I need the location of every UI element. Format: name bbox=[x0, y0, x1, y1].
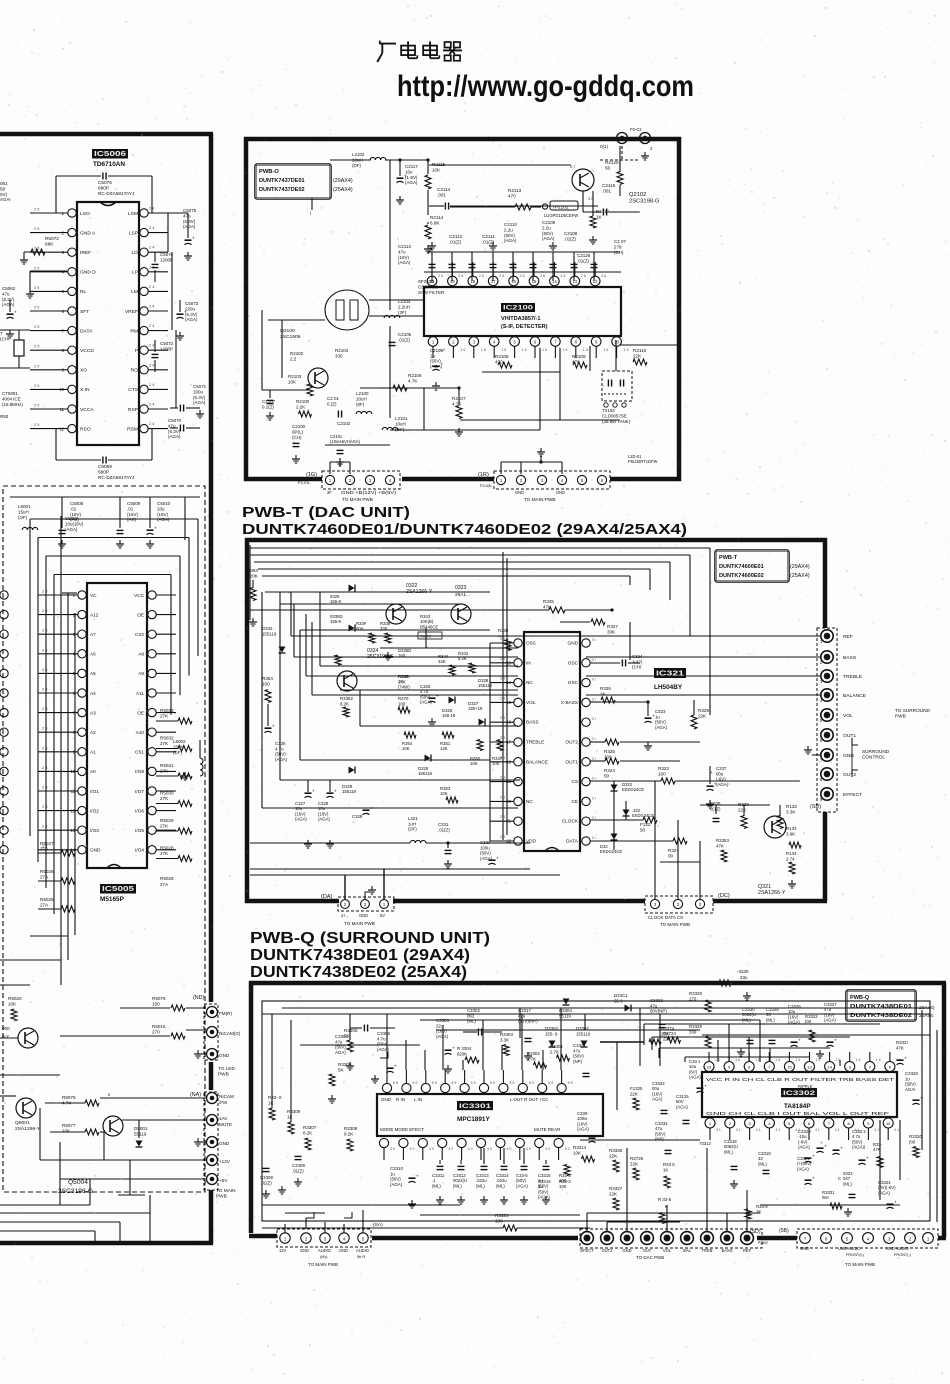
svg-text:55119: 55119 bbox=[134, 1132, 147, 1137]
svg-text:2 6: 2 6 bbox=[438, 274, 443, 278]
svg-text:27A: 27A bbox=[40, 903, 49, 908]
svg-text:(50V): (50V) bbox=[905, 1082, 916, 1087]
svg-text:R3353: R3353 bbox=[716, 838, 729, 843]
svg-text:BASS: BASS bbox=[843, 655, 857, 661]
svg-text:C2108: C2108 bbox=[564, 231, 578, 236]
svg-text:C323: C323 bbox=[655, 709, 666, 714]
svg-text:4.7u: 4.7u bbox=[377, 1036, 386, 1041]
svg-text:TO MAIN PWB: TO MAIN PWB bbox=[308, 1262, 338, 1267]
svg-text:5V: 5V bbox=[380, 913, 385, 918]
svg-text:2 4: 2 4 bbox=[149, 422, 155, 426]
svg-text:5 9: 5 9 bbox=[432, 1081, 437, 1085]
svg-text:R2108: R2108 bbox=[495, 354, 509, 359]
svg-text:RL: RL bbox=[80, 289, 87, 295]
svg-text:I/O1: I/O1 bbox=[90, 789, 99, 794]
svg-text:10K: 10K bbox=[440, 791, 448, 796]
svg-text:0 /: 0 / bbox=[592, 737, 596, 741]
svg-text:R3329: R3329 bbox=[689, 991, 702, 996]
svg-text:M5165P: M5165P bbox=[100, 896, 125, 903]
svg-text:CLD0057SE: CLD0057SE bbox=[602, 413, 627, 418]
svg-text:(AGA): (AGA) bbox=[398, 260, 411, 265]
svg-text:(CHI: (CHI bbox=[632, 665, 641, 670]
svg-text:1K: 1K bbox=[600, 692, 607, 697]
svg-text:(SD): (SD) bbox=[810, 804, 821, 810]
svg-text:R2120: R2120 bbox=[605, 160, 619, 165]
svg-text:OSC: OSC bbox=[568, 660, 579, 665]
svg-text:GND: GND bbox=[359, 913, 368, 918]
svg-text:(AGA): (AGA) bbox=[405, 180, 418, 185]
svg-text:9: 9 bbox=[751, 1227, 753, 1231]
svg-text:2 6: 2 6 bbox=[560, 274, 565, 278]
svg-text:(AX): (AX) bbox=[127, 517, 136, 522]
svg-text:1 6: 1 6 bbox=[795, 1058, 800, 1062]
svg-text:CS2: CS2 bbox=[135, 632, 145, 637]
svg-text:+: + bbox=[812, 1177, 815, 1182]
svg-text:.01: .01 bbox=[127, 506, 134, 511]
svg-text:I/O8: I/O8 bbox=[135, 769, 144, 774]
svg-text:(AGA): (AGA) bbox=[168, 434, 181, 439]
svg-text:2F: 2F bbox=[327, 490, 332, 495]
svg-text:B5446CE: B5446CE bbox=[420, 624, 438, 629]
svg-text:0 /: 0 / bbox=[592, 836, 596, 840]
svg-text:(16.9MHz): (16.9MHz) bbox=[2, 402, 23, 407]
svg-text:R IN: R IN bbox=[396, 1097, 405, 1102]
svg-text:L5001: L5001 bbox=[18, 504, 31, 509]
svg-text:VCC: VCC bbox=[134, 593, 145, 598]
svg-text:100: 100 bbox=[658, 772, 666, 777]
svg-text:R32-: R32- bbox=[668, 848, 678, 853]
svg-text:+: + bbox=[840, 1147, 843, 1152]
svg-text:C5008: C5008 bbox=[70, 501, 84, 506]
svg-text:R325: R325 bbox=[604, 749, 615, 754]
svg-text:C2111: C2111 bbox=[482, 234, 495, 239]
svg-text:27K: 27K bbox=[160, 851, 169, 856]
svg-text:PWB: PWB bbox=[895, 714, 906, 719]
svg-text:(AGA): (AGA) bbox=[655, 725, 668, 730]
svg-text:GND A: GND A bbox=[80, 230, 96, 236]
svg-text:GND: GND bbox=[568, 641, 579, 646]
svg-text:+: + bbox=[704, 1085, 707, 1090]
svg-text:C3310: C3310 bbox=[390, 1166, 403, 1171]
svg-text:4 1: 4 1 bbox=[874, 1128, 879, 1132]
svg-text:R363: R363 bbox=[247, 568, 258, 573]
svg-text:C3309: C3309 bbox=[260, 1175, 273, 1180]
svg-text:4 0: 4 0 bbox=[468, 1147, 473, 1151]
svg-text:SF2100: SF2100 bbox=[418, 279, 434, 284]
svg-text:56: 56 bbox=[605, 166, 611, 171]
svg-text:-3330: -3330 bbox=[737, 969, 749, 974]
svg-text:(ML): (ML) bbox=[724, 1149, 733, 1154]
svg-text:TO MAIN PWB: TO MAIN PWB bbox=[342, 497, 373, 502]
svg-text:2.7K: 2.7K bbox=[550, 1049, 559, 1054]
svg-text:L OUT R OUT +CC: L OUT R OUT +CC bbox=[510, 1097, 549, 1102]
svg-text:(AGA): (AGA) bbox=[504, 238, 517, 243]
svg-text:0 /: 0 / bbox=[592, 678, 596, 682]
svg-text:DUNTK7437DE02: DUNTK7437DE02 bbox=[259, 187, 305, 193]
svg-text:12K: 12K bbox=[440, 746, 448, 751]
svg-text:GND D: GND D bbox=[80, 270, 96, 276]
svg-text:58: 58 bbox=[0, 186, 5, 191]
svg-text:(29AX4): (29AX4) bbox=[790, 564, 810, 570]
svg-text:(16V): (16V) bbox=[127, 512, 138, 517]
svg-text:27K: 27K bbox=[160, 741, 169, 746]
svg-text:R3309: R3309 bbox=[287, 1109, 301, 1114]
svg-text:R2113: R2113 bbox=[508, 188, 522, 193]
svg-text:A12: A12 bbox=[90, 612, 99, 617]
svg-text:OE: OE bbox=[137, 612, 144, 617]
svg-text:GND: GND bbox=[556, 490, 565, 495]
svg-text:LSO: LSO bbox=[80, 211, 90, 217]
svg-text:10uH: 10uH bbox=[395, 421, 406, 426]
svg-text:.01(Z): .01(Z) bbox=[577, 258, 589, 263]
svg-text:0 /: 0 / bbox=[592, 757, 596, 761]
svg-text:A4: A4 bbox=[90, 691, 96, 696]
svg-text:1 6: 1 6 bbox=[522, 348, 527, 352]
svg-text:.01: .01 bbox=[70, 506, 77, 511]
svg-text:VOL: VOL bbox=[843, 713, 853, 719]
svg-text:10K: 10K bbox=[573, 1150, 581, 1155]
svg-text:(50V): (50V) bbox=[504, 233, 515, 238]
svg-text:R5028: R5028 bbox=[160, 876, 174, 881]
svg-text:5 9: 5 9 bbox=[471, 1081, 476, 1085]
svg-text:10K: 10K bbox=[432, 168, 441, 173]
svg-text:DATA: DATA bbox=[80, 328, 93, 334]
svg-text:R133: R133 bbox=[786, 826, 797, 831]
svg-text:(AGA): (AGA) bbox=[542, 236, 555, 241]
svg-text:2: 2 bbox=[729, 1121, 731, 1126]
svg-text:R335: R335 bbox=[543, 599, 554, 604]
svg-text:22K: 22K bbox=[609, 1191, 617, 1196]
svg-text:CONTROL: CONTROL bbox=[862, 755, 885, 760]
svg-text:100: 100 bbox=[559, 1184, 567, 1189]
svg-text:100: 100 bbox=[262, 682, 270, 687]
svg-text:P2-02L: P2-02L bbox=[480, 484, 493, 488]
svg-text:FM(R): FM(R) bbox=[219, 1011, 232, 1016]
svg-text:C2 07: C2 07 bbox=[614, 239, 626, 244]
svg-text:4004 ICE: 4004 ICE bbox=[2, 396, 21, 401]
svg-text:TD6710AN: TD6710AN bbox=[93, 161, 125, 168]
svg-text:+: + bbox=[866, 1157, 869, 1162]
svg-text:AGA): AGA) bbox=[335, 1050, 346, 1055]
svg-text:/FM: /FM bbox=[219, 1100, 227, 1105]
svg-text:4 0: 4 0 bbox=[545, 1147, 550, 1151]
svg-text:(AGA): (AGA) bbox=[193, 400, 206, 405]
svg-text:2?9: 2?9 bbox=[614, 244, 622, 249]
svg-text:(NA): (NA) bbox=[190, 1092, 201, 1098]
svg-text:C5075: C5075 bbox=[183, 208, 197, 213]
svg-text:R327: R327 bbox=[607, 624, 618, 629]
svg-text:5 9: 5 9 bbox=[490, 1081, 495, 1085]
svg-text:(ML): (ML) bbox=[453, 1183, 462, 1188]
svg-text:OE: OE bbox=[137, 710, 144, 715]
svg-text:...: ... bbox=[498, 633, 502, 638]
svg-text:2 4: 2 4 bbox=[149, 305, 155, 309]
svg-text:LSM: LSM bbox=[128, 211, 138, 217]
svg-text:FRONT(-): FRONT(-) bbox=[894, 1253, 912, 1257]
svg-text:(AGA): (AGA) bbox=[797, 1166, 809, 1171]
svg-text:(ML): (ML) bbox=[496, 1183, 505, 1188]
svg-text:5 9: 5 9 bbox=[451, 1081, 456, 1085]
svg-text:0.1(Z): 0.1(Z) bbox=[262, 404, 274, 409]
svg-text:SAW FILTER: SAW FILTER bbox=[418, 290, 445, 295]
svg-text:(10uH&VHAGA): (10uH&VHAGA) bbox=[330, 439, 361, 444]
svg-text:(6.3V): (6.3V) bbox=[185, 312, 198, 317]
svg-text:GND +B(12V) +B(5V): GND +B(12V) +B(5V) bbox=[341, 490, 397, 495]
svg-text:OUT2: OUT2 bbox=[843, 772, 856, 778]
svg-text:10uH: 10uH bbox=[356, 396, 367, 401]
svg-text:DUNTK7460DE01/DUNTK7460DE02 (: DUNTK7460DE01/DUNTK7460DE02 (29AX4/25AX4… bbox=[242, 521, 687, 538]
svg-text:00: 00 bbox=[668, 854, 674, 859]
svg-text:5 9: 5 9 bbox=[568, 1081, 573, 1085]
svg-text:(6.3V): (6.3V) bbox=[193, 395, 206, 400]
svg-text:IN: IN bbox=[526, 660, 531, 665]
svg-text:C: C bbox=[838, 1176, 841, 1181]
svg-text:9: 9 bbox=[671, 1227, 673, 1231]
svg-text:X-BASS: X-BASS bbox=[561, 700, 578, 705]
svg-text:A10: A10 bbox=[136, 730, 145, 735]
svg-text:+: + bbox=[404, 175, 407, 180]
svg-text:(AGA): (AGA) bbox=[716, 782, 729, 787]
svg-text:2 5: 2 5 bbox=[34, 208, 39, 212]
svg-text:VOL: VOL bbox=[526, 700, 536, 705]
svg-text:TREBLE: TREBLE bbox=[843, 674, 863, 680]
svg-text:1: 1 bbox=[709, 1121, 711, 1126]
svg-text:4 1: 4 1 bbox=[894, 1128, 899, 1132]
svg-text:.01(Z): .01(Z) bbox=[564, 236, 576, 241]
svg-text:2 3: 2 3 bbox=[500, 696, 505, 700]
svg-text:27A: 27A bbox=[40, 875, 49, 880]
svg-text:15uH: 15uH bbox=[173, 744, 184, 749]
svg-text:1200P: 1200P bbox=[160, 346, 173, 351]
svg-text:D332: D332 bbox=[262, 626, 273, 631]
svg-text:9: 9 bbox=[651, 1227, 653, 1231]
svg-text:14: 14 bbox=[552, 279, 557, 284]
svg-text:.01(Z): .01(Z) bbox=[260, 1180, 272, 1185]
svg-text:+: + bbox=[14, 311, 17, 316]
svg-text:R 3304: R 3304 bbox=[457, 1046, 472, 1051]
svg-text:4 1: 4 1 bbox=[775, 1128, 780, 1132]
svg-text:4 0: 4 0 bbox=[526, 1147, 531, 1151]
svg-text:0 /: 0 / bbox=[592, 717, 596, 721]
svg-text:2 4: 2 4 bbox=[149, 226, 155, 230]
svg-text:13: 13 bbox=[572, 279, 577, 284]
svg-text:18: 18 bbox=[470, 279, 475, 284]
svg-text:OUT1: OUT1 bbox=[843, 733, 856, 739]
svg-text:.01(Z): .01(Z) bbox=[438, 827, 450, 832]
svg-text:470: 470 bbox=[508, 194, 516, 199]
svg-text:R3308: R3308 bbox=[344, 1126, 358, 1131]
svg-text:AGA!: AGA! bbox=[0, 197, 11, 202]
svg-text:R370: R370 bbox=[398, 696, 409, 701]
svg-text:RC-DZA681TAYJ: RC-DZA681TAYJ bbox=[98, 475, 134, 480]
svg-text:R3327: R3327 bbox=[609, 1186, 623, 1191]
svg-text:+: + bbox=[824, 1145, 827, 1150]
svg-text:.01(Z): .01(Z) bbox=[398, 337, 410, 342]
svg-text:22K: 22K bbox=[738, 808, 747, 813]
svg-text:RIPPLE: RIPPLE bbox=[798, 1084, 813, 1089]
svg-text:R364: R364 bbox=[262, 676, 273, 681]
svg-text:(AGA): (AGA) bbox=[2, 302, 15, 307]
svg-text:155-9: 155-9 bbox=[330, 619, 342, 624]
svg-text:330: 330 bbox=[335, 353, 343, 358]
svg-text:10: 10 bbox=[614, 340, 619, 345]
svg-text:25C3198-G: 25C3198-G bbox=[367, 654, 394, 660]
svg-text:2 6: 2 6 bbox=[540, 274, 545, 278]
svg-text:RSM: RSM bbox=[127, 426, 138, 432]
svg-text:D33C1: D33C1 bbox=[614, 993, 628, 998]
svg-text:(AGA): (AGA) bbox=[275, 757, 288, 762]
svg-text:LP: LP bbox=[132, 270, 139, 276]
svg-text:A5: A5 bbox=[90, 671, 96, 676]
svg-text:4?u: 4?u bbox=[335, 1039, 343, 1044]
svg-text:L IN: L IN bbox=[414, 1097, 422, 1102]
svg-text:2 5: 2 5 bbox=[34, 404, 39, 408]
svg-text:R2726: R2726 bbox=[630, 1156, 644, 1161]
svg-text:(50V)(NP): (50V)(NP) bbox=[518, 1019, 538, 1024]
svg-text:X IN: X IN bbox=[80, 387, 90, 393]
svg-text:TO MAIN PWB: TO MAIN PWB bbox=[660, 922, 690, 927]
svg-text:2.7K: 2.7K bbox=[527, 1056, 536, 1061]
svg-text:620K: 620K bbox=[457, 1051, 467, 1056]
svg-text:I/O3: I/O3 bbox=[90, 828, 99, 833]
svg-text:TO MAIN: TO MAIN bbox=[216, 1188, 236, 1193]
svg-text:00u: 00u bbox=[716, 771, 724, 776]
svg-text:C2113: C2113 bbox=[398, 244, 411, 249]
svg-text:RSP: RSP bbox=[128, 407, 139, 413]
svg-text:+: + bbox=[312, 790, 315, 795]
svg-text:0(1): 0(1) bbox=[600, 144, 608, 149]
svg-text:P5LD6RT1DFW: P5LD6RT1DFW bbox=[628, 459, 657, 464]
svg-text:GND: GND bbox=[515, 490, 524, 495]
svg-text:9: 9 bbox=[691, 1227, 693, 1231]
svg-text:4 1: 4 1 bbox=[756, 1128, 761, 1132]
svg-text:10u(16V): 10u(16V) bbox=[65, 521, 84, 526]
svg-text:680P: 680P bbox=[98, 470, 109, 475]
svg-text:(AGA): (AGA) bbox=[295, 817, 307, 822]
svg-text:100u: 100u bbox=[193, 389, 203, 394]
svg-text:GND: GND bbox=[219, 1141, 230, 1146]
svg-text:TREB: TREB bbox=[702, 1248, 713, 1253]
svg-text:http://www.go-gddq.com: http://www.go-gddq.com bbox=[397, 70, 694, 103]
svg-text:2SC3198-G: 2SC3198-G bbox=[629, 199, 660, 205]
svg-text:4 0: 4 0 bbox=[448, 1147, 453, 1151]
svg-text:2 5: 2 5 bbox=[34, 384, 39, 388]
svg-text:10K: 10K bbox=[470, 761, 478, 766]
svg-text:BASS: BASS bbox=[526, 720, 539, 725]
svg-text:IREF: IREF bbox=[80, 250, 91, 256]
svg-text:?3312: ?3312 bbox=[699, 1141, 711, 1146]
svg-text:9: 9 bbox=[731, 1227, 733, 1231]
svg-text:GND: GND bbox=[300, 1248, 309, 1253]
svg-text:PWB: PWB bbox=[218, 1072, 229, 1077]
svg-text:7: 7 bbox=[828, 1121, 830, 1126]
svg-text:(AGA)(: (AGA)( bbox=[852, 1145, 866, 1150]
svg-text:2 5: 2 5 bbox=[34, 325, 39, 329]
svg-text:50: 50 bbox=[640, 828, 646, 833]
svg-text:NICAM: NICAM bbox=[219, 1094, 234, 1099]
svg-text:BALANCE: BALANCE bbox=[843, 693, 867, 699]
svg-text:C2105: C2105 bbox=[398, 332, 412, 337]
svg-text:A1: A1 bbox=[90, 750, 96, 755]
svg-text:C3304: C3304 bbox=[335, 1034, 348, 1039]
svg-text:P3302: P3302 bbox=[758, 1241, 768, 1245]
svg-text:(29AX4): (29AX4) bbox=[333, 178, 353, 184]
svg-text:2 3: 2 3 bbox=[500, 716, 505, 720]
svg-text:0 /: 0 / bbox=[592, 777, 596, 781]
svg-text:+: + bbox=[436, 695, 439, 700]
svg-text:(50V): (50V) bbox=[655, 720, 666, 725]
svg-text:(50V): (50V) bbox=[390, 1177, 401, 1182]
svg-text:P2-01L: P2-01L bbox=[298, 481, 311, 485]
svg-text:(NP): (NP) bbox=[655, 1137, 664, 1142]
svg-text:BALANCE: BALANCE bbox=[526, 759, 548, 764]
svg-text:(M)L: (M)L bbox=[320, 1255, 329, 1259]
svg-text:EKDG24CE: EKDG24CE bbox=[632, 813, 654, 818]
svg-text:4 0: 4 0 bbox=[487, 1147, 492, 1151]
svg-text:C2114: C2114 bbox=[437, 187, 451, 192]
svg-text:FRONT(L): FRONT(L) bbox=[846, 1253, 865, 1257]
svg-text:2 3: 2 3 bbox=[500, 835, 505, 839]
svg-text:1uH: 1uH bbox=[408, 821, 416, 826]
svg-text:27A: 27A bbox=[40, 847, 49, 852]
svg-text:50: 50 bbox=[604, 774, 610, 779]
svg-text:680P: 680P bbox=[98, 186, 109, 191]
svg-text:0 /: 0 / bbox=[592, 697, 596, 701]
svg-text:33u: 33u bbox=[740, 975, 748, 980]
svg-text:F122: F122 bbox=[640, 822, 651, 827]
svg-text:(ND): (ND) bbox=[193, 995, 204, 1001]
svg-text:(1-6V): (1-6V) bbox=[405, 175, 418, 180]
svg-text:LSP: LSP bbox=[129, 230, 139, 236]
svg-text:50V(NP): 50V(NP) bbox=[650, 1009, 667, 1014]
svg-text:1K: 1K bbox=[268, 1100, 273, 1105]
svg-text:155- 9: 155- 9 bbox=[545, 1031, 558, 1036]
svg-text:(50V): (50V) bbox=[480, 851, 491, 856]
svg-text:12: 12 bbox=[593, 279, 598, 284]
svg-text:DUNTK74600E01: DUNTK74600E01 bbox=[719, 564, 764, 570]
svg-text:47u: 47u bbox=[2, 291, 10, 296]
svg-text:(SA): (SA) bbox=[373, 1222, 383, 1228]
svg-text:(AGA): (AGA) bbox=[538, 1195, 550, 1200]
svg-text:(NP): (NP) bbox=[573, 1059, 583, 1064]
svg-text:+: + bbox=[798, 1039, 801, 1044]
svg-text:TO SURROUND: TO SURROUND bbox=[895, 708, 931, 713]
svg-text:OSC: OSC bbox=[568, 680, 579, 685]
svg-text:(S-IF, DETECTER): (S-IF, DETECTER) bbox=[501, 324, 548, 330]
svg-text:2: 2 bbox=[869, 1065, 871, 1070]
svg-text:2 4: 2 4 bbox=[149, 403, 155, 407]
svg-text:R2110: R2110 bbox=[633, 348, 647, 353]
svg-text:2 5: 2 5 bbox=[34, 364, 39, 368]
svg-text:F1325: F1325 bbox=[630, 1086, 643, 1091]
svg-text:+: + bbox=[184, 311, 187, 316]
svg-text:1 6: 1 6 bbox=[562, 348, 567, 352]
svg-text:DUNTK7438DE02 (25AX4): DUNTK7438DE02 (25AX4) bbox=[250, 964, 467, 981]
svg-text:+: + bbox=[370, 807, 373, 812]
svg-text:27A: 27A bbox=[160, 882, 169, 887]
svg-text:NICAM(G): NICAM(G) bbox=[219, 1031, 241, 1036]
svg-text:PWB-T: PWB-T bbox=[719, 555, 738, 561]
svg-text:155119: 155119 bbox=[418, 771, 433, 776]
svg-text:A8: A8 bbox=[138, 652, 144, 657]
svg-text:55 9: 55 9 bbox=[614, 998, 623, 1003]
svg-text:2 3: 2 3 bbox=[500, 736, 505, 740]
svg-text:1 6: 1 6 bbox=[876, 1058, 881, 1062]
svg-text:10K: 10K bbox=[402, 746, 410, 751]
svg-text:C2 01: C2 01 bbox=[327, 396, 339, 401]
svg-text:C3326: C3326 bbox=[905, 1071, 918, 1076]
svg-text:RC-DZA681TAYJ: RC-DZA681TAYJ bbox=[98, 191, 134, 196]
